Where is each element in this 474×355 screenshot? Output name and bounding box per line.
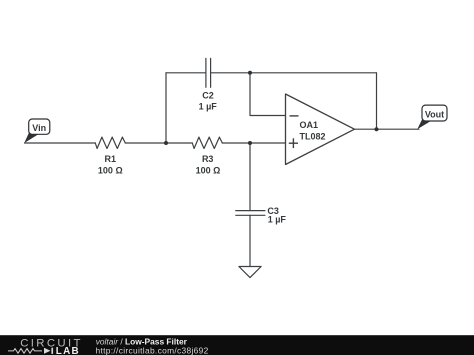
svg-text:R3: R3 xyxy=(202,154,214,164)
svg-text:http://circuitlab.com/c38j692: http://circuitlab.com/c38j692 xyxy=(96,346,209,355)
svg-text:TL082: TL082 xyxy=(300,132,326,142)
svg-text:1 µF: 1 µF xyxy=(268,214,287,224)
svg-text:R1: R1 xyxy=(105,154,117,164)
svg-text:OA1: OA1 xyxy=(300,120,319,130)
svg-text:1 µF: 1 µF xyxy=(199,101,218,111)
svg-text:C2: C2 xyxy=(202,91,214,101)
svg-text:100 Ω: 100 Ω xyxy=(98,166,123,176)
svg-text:LAB: LAB xyxy=(56,346,80,355)
svg-text:Vin: Vin xyxy=(32,123,46,133)
svg-text:Vout: Vout xyxy=(425,109,444,119)
svg-text:100 Ω: 100 Ω xyxy=(196,166,221,176)
